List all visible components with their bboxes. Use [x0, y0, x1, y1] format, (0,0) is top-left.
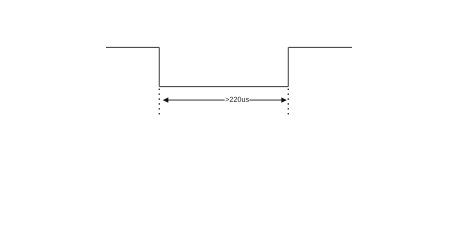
wire: high level segment (right) — [288, 46, 352, 48]
value label >220us — [226, 97, 249, 102]
node: dotted reference line at falling edge — [158, 89, 160, 115]
wire: rising edge — [287, 47, 289, 86]
wire: high level segment (left) — [106, 46, 159, 48]
wire: falling edge — [158, 47, 160, 86]
dimension arrowhead right — [281, 97, 287, 102]
dimension arrowhead left — [163, 97, 169, 102]
dimension arrow shaft — [168, 99, 282, 101]
wire: low level segment — [159, 86, 288, 88]
node: dotted reference line at rising edge — [287, 89, 289, 115]
